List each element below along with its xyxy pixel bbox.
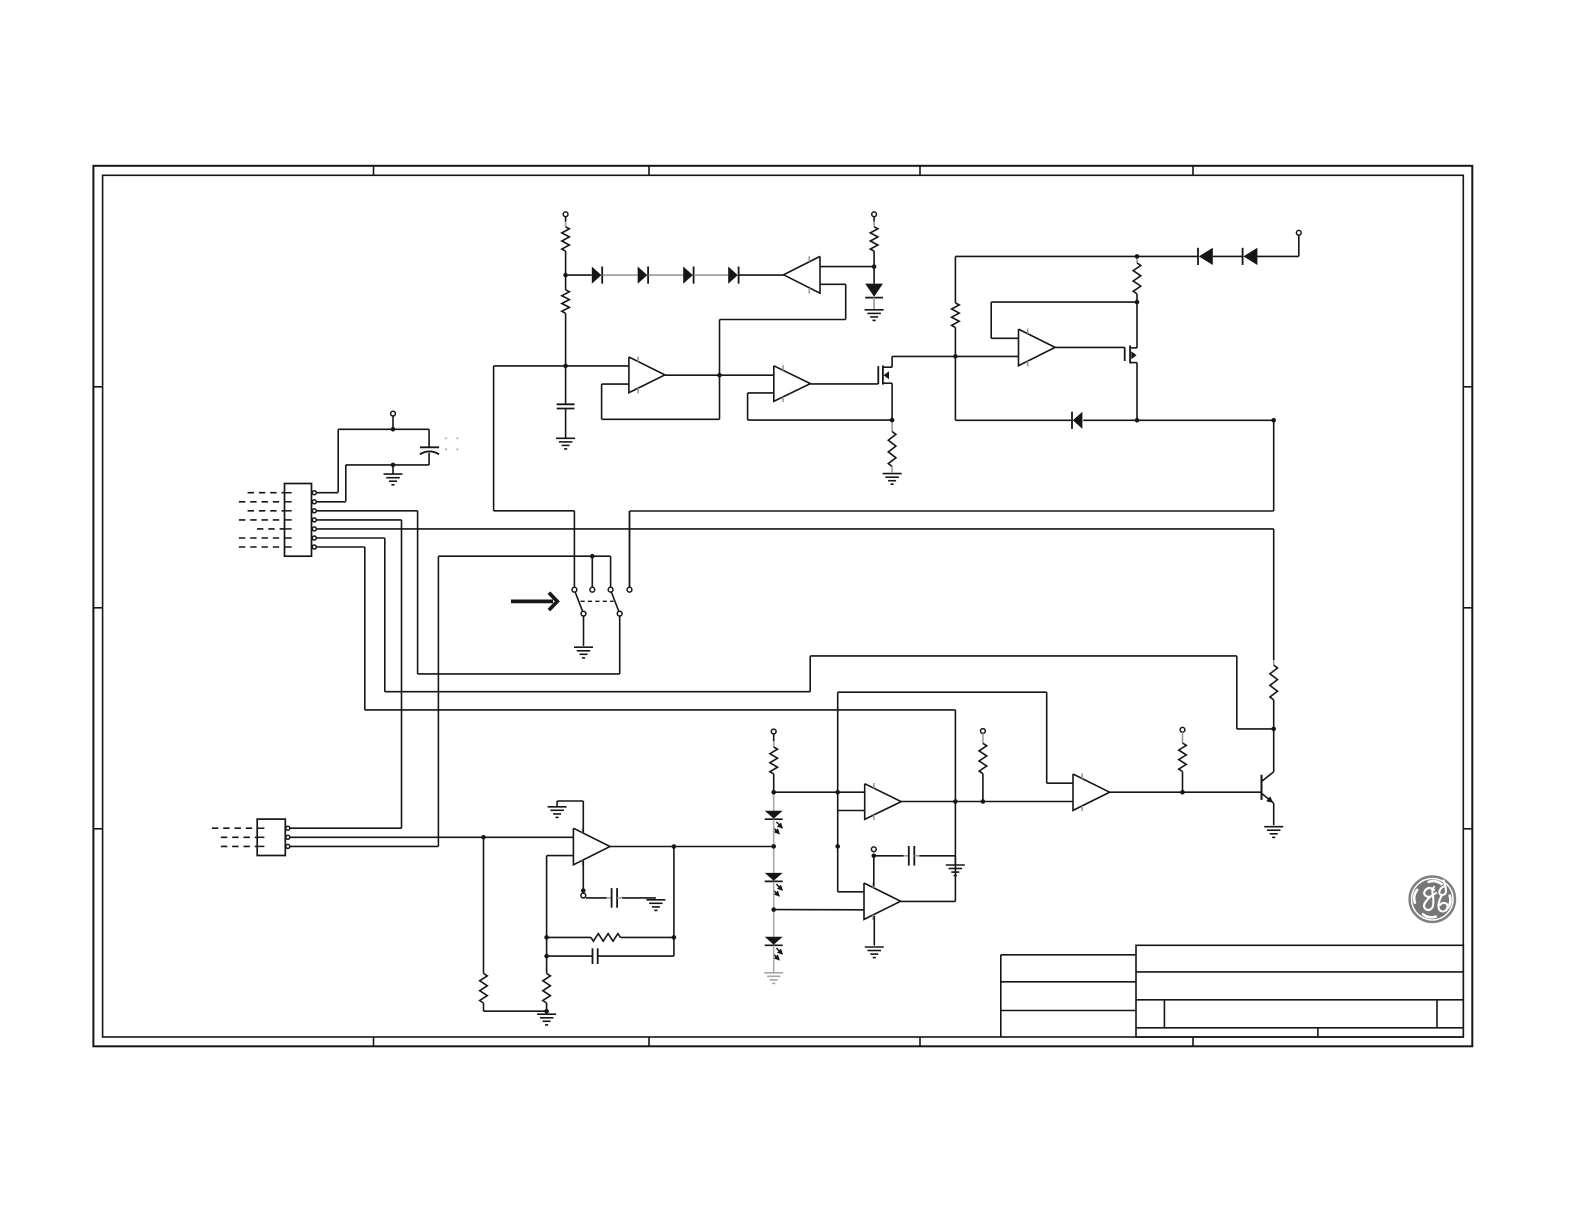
wire U7 output: [901, 900, 956, 902]
wire C2 bottom net: [346, 453, 429, 501]
wire D4 to U1 output: [739, 274, 784, 276]
border frame outer: [93, 166, 1472, 1047]
node Z junction: [981, 799, 986, 804]
wire main row to U2: [494, 365, 629, 367]
wire R10 to node: [773, 774, 775, 792]
wire U5 comp pin: [582, 860, 584, 890]
ground GND9: [764, 973, 783, 984]
node U junction: [771, 790, 776, 795]
wire R9 stub top: [891, 420, 893, 431]
wire box top edge: [438, 556, 610, 846]
wire R6 net: [483, 837, 485, 973]
wire R5 top stub: [1136, 256, 1138, 263]
LED DS1: [765, 811, 783, 835]
border frame inner: [103, 175, 1464, 1037]
wire U6 net to U8: [838, 692, 1073, 792]
switch S1 pole L2: [617, 611, 622, 616]
resistor R8: [591, 934, 621, 942]
capacitor C5: [909, 846, 915, 866]
ground GND1: [865, 310, 884, 321]
wire U8 output: [1110, 791, 1262, 793]
wire U2 feedback: [602, 384, 720, 419]
resistor R4: [952, 303, 960, 328]
op-amp U5: [573, 828, 610, 866]
node O junction: [581, 888, 586, 893]
revision table: [1001, 955, 1136, 1037]
wire U6 lower input branch: [838, 792, 865, 846]
node N junction: [481, 835, 486, 840]
wire switch c4 net: [630, 420, 1274, 587]
op-amp U1: [784, 256, 820, 293]
wire U7 bottom pin: [873, 916, 875, 946]
wire U5 feedback vertical: [598, 847, 674, 957]
ground GND6: [548, 807, 567, 818]
wire node D down: [954, 356, 956, 420]
wire L1 to ground: [583, 616, 585, 646]
resistor R1: [562, 227, 570, 251]
node AA junction: [835, 844, 840, 849]
wire U4 lower input: [892, 355, 1018, 357]
node M junction: [590, 554, 595, 559]
wire pin2: [316, 501, 346, 503]
wire R3 to node B: [873, 251, 875, 267]
resistor R7: [543, 973, 551, 1003]
wire R7 to ground node: [546, 1003, 548, 1011]
ground GND2: [556, 438, 575, 449]
diode D7: [1072, 412, 1082, 429]
capacitor C2 polarized: [420, 447, 439, 454]
connector CN2: [257, 819, 285, 855]
ground GND4: [384, 474, 403, 485]
ground GND5: [574, 647, 593, 658]
wire U5 power flag: [557, 801, 583, 833]
wire T1 to R1: [565, 217, 567, 227]
wire D6 to T3: [1257, 235, 1298, 256]
node L junction: [391, 463, 396, 468]
wire U5 lower input net: [547, 856, 574, 974]
wire R8 right: [620, 936, 674, 938]
node E junction: [1135, 300, 1140, 305]
wire D2-D3: [649, 274, 684, 276]
wire C5 to ground: [914, 856, 955, 865]
wire node L to ground: [392, 465, 394, 474]
wire R2 to node H: [565, 313, 567, 366]
wire pin7: [316, 547, 956, 901]
node A junction: [563, 273, 568, 278]
wire U4 output: [1055, 346, 1125, 348]
wire pinA: [290, 827, 402, 829]
wire LED2 top: [773, 846, 775, 873]
wire LED row 1: [774, 791, 865, 793]
node AD junction: [1271, 727, 1276, 732]
terminal T3: [1296, 230, 1301, 235]
ground GND12: [1264, 827, 1283, 838]
diode D1: [592, 267, 602, 284]
switch S1 contact c2: [590, 587, 595, 592]
wire U5 output: [610, 846, 774, 848]
switch arrow symbol: [511, 593, 557, 610]
ground GND11: [865, 947, 884, 958]
wire pin3: [316, 511, 418, 674]
diode D6: [1243, 248, 1258, 265]
node D junction: [953, 354, 958, 359]
ground GND10: [946, 865, 965, 876]
wire R1 to node A: [565, 251, 567, 275]
node J junction: [890, 418, 895, 423]
op-amp U6: [865, 783, 902, 820]
terminal T2: [872, 212, 877, 217]
wire R9 stub bottom: [891, 467, 893, 473]
diode D4: [728, 267, 738, 284]
LED DS3: [765, 937, 783, 961]
wire pin5: [316, 529, 1274, 660]
wire c3 up: [610, 556, 612, 587]
wire comp to C4: [586, 897, 612, 899]
connector CN2 pins: [286, 826, 290, 848]
connector CN1: [285, 484, 312, 557]
title block: [1136, 945, 1463, 1037]
wire comp to C5: [876, 855, 909, 857]
switch S1 contact c1: [572, 587, 577, 592]
wire node A to R2: [565, 275, 567, 290]
wire R6 bottom: [484, 1003, 547, 1011]
node K junction: [391, 427, 396, 432]
wire T5 to R10: [773, 734, 775, 747]
diode D3: [683, 267, 693, 284]
switch S1 lever 2: [611, 592, 619, 612]
terminal T5: [771, 729, 776, 734]
wire C4 to ground: [617, 897, 656, 899]
wire T4 down: [392, 416, 394, 429]
resistor R10: [770, 747, 778, 774]
LED DS2: [765, 873, 783, 897]
switch S1 contact c3: [608, 587, 613, 592]
wire pin1: [316, 492, 339, 494]
node W junction: [771, 844, 776, 849]
node Q junction: [672, 935, 677, 940]
faint marks: [445, 437, 459, 450]
wire feedback vertical: [719, 320, 721, 420]
wire D1-D2: [603, 274, 638, 276]
capacitor C4: [612, 888, 618, 908]
node Y junction: [953, 799, 958, 804]
node B junction: [872, 264, 877, 269]
connector CN1 pin stubs: [285, 493, 292, 547]
resistor R13: [1270, 665, 1278, 700]
wire D3-D4: [694, 274, 728, 276]
wire rail corner down R4: [954, 256, 956, 303]
terminal T6 comp: [581, 893, 586, 898]
transistor Q1 NPN: [1262, 772, 1274, 803]
node I junction: [717, 373, 722, 378]
node AC junction: [1180, 790, 1185, 795]
node V junction: [835, 790, 840, 795]
wire Q1 emitter: [1273, 803, 1275, 825]
resistor R11 pullup: [979, 729, 987, 802]
switch S1 contact c4: [627, 587, 632, 592]
resistor R9: [888, 432, 896, 467]
wire D5-D6: [1213, 255, 1243, 257]
wire C2 top net: [338, 429, 429, 492]
node AB junction: [872, 854, 877, 859]
wire R5 to node E: [1136, 294, 1138, 302]
transistor Q3 MOSFET: [878, 365, 892, 384]
wire U1 lower input feedback: [720, 284, 846, 319]
wire U1 upper input: [820, 266, 874, 268]
transistor Q2 MOSFET: [1125, 345, 1137, 363]
connector CN2 dashed leads: [212, 828, 257, 846]
ground GND3: [883, 474, 902, 485]
node F junction: [1135, 418, 1140, 423]
border zone ticks: [93, 166, 1472, 1047]
wire box bottom edge: [418, 673, 620, 675]
node G junction: [1271, 418, 1276, 423]
wire pinC: [290, 845, 439, 847]
node T junction: [544, 1009, 549, 1014]
wire c4 up: [629, 511, 631, 587]
wire bottom rail right: [1083, 419, 1274, 421]
wire Q1 collector: [1273, 729, 1275, 772]
capacitor C1: [557, 366, 575, 438]
connector CN1 pins: [312, 491, 316, 549]
resistor R2: [562, 290, 570, 314]
terminal T1: [563, 212, 568, 217]
resistor R5: [1133, 263, 1141, 294]
ground GND8: [537, 1014, 556, 1025]
wire LED3 top: [773, 910, 775, 937]
wire pin4: [316, 520, 402, 828]
wire U3 lower input feedback: [748, 393, 893, 420]
terminal T7 comp: [871, 847, 876, 852]
wire R8 left: [547, 936, 591, 938]
terminal T4: [391, 411, 396, 416]
wire bottom rail left: [955, 419, 1072, 421]
resistor R12 pullup: [1179, 727, 1187, 792]
wire R4 to node D: [954, 327, 956, 356]
wire pinB: [290, 836, 574, 838]
node H junction: [563, 364, 568, 369]
wire U7 comp pin: [873, 856, 875, 887]
diode D8: [865, 284, 883, 298]
wire Q3 source: [891, 383, 893, 420]
wire LED1 bottom: [773, 819, 775, 846]
wire switch c1 net: [494, 366, 575, 587]
capacitor C3: [593, 948, 598, 964]
switch S1 pole L1: [581, 611, 586, 616]
wire top rail: [955, 255, 1198, 257]
wire LED row 2: [774, 909, 864, 911]
resistor R6: [480, 973, 488, 1003]
node C junction: [1135, 254, 1140, 259]
wire Q3 drain: [891, 356, 893, 367]
node X junction: [771, 907, 776, 912]
wire U6 output: [901, 801, 1073, 803]
diode D2: [638, 267, 648, 284]
wire T2 to R3: [873, 217, 875, 227]
wire R13 stub: [1273, 660, 1275, 665]
switch S1 lever 1: [575, 592, 583, 612]
wire C3 left: [547, 955, 593, 957]
wire node A to D1: [568, 274, 592, 276]
wire D8 to ground: [873, 298, 875, 310]
wire Q2 source: [1136, 363, 1138, 421]
connector CN1 dashed leads: [239, 493, 285, 547]
wire U4 feedback: [991, 302, 1137, 338]
wire U2 output: [665, 374, 774, 376]
node S junction: [544, 954, 549, 959]
wire U3 output: [810, 383, 878, 385]
wire LED3 bottom: [773, 946, 775, 973]
GE logo: [1410, 877, 1455, 922]
wire node B to D8: [873, 267, 875, 284]
diode D5: [1198, 248, 1213, 265]
node R junction: [544, 935, 549, 940]
connector CN2 pin stubs: [257, 828, 264, 846]
wire mid net vertical: [838, 846, 864, 891]
op-amp U2: [629, 356, 665, 393]
op-amp U8: [1073, 773, 1110, 811]
wire L2 down: [619, 616, 621, 674]
wire c2 up: [591, 556, 593, 587]
wire LED2 bottom: [773, 882, 775, 910]
op-amp U4: [1019, 329, 1056, 367]
wire R13 to node: [1273, 700, 1275, 729]
switch S1 link dashed: [581, 600, 614, 602]
wire pin6: [316, 538, 1274, 729]
resistor R3: [870, 227, 878, 251]
ground GND7: [646, 900, 665, 911]
wire Q2 drain: [1136, 302, 1138, 348]
op-amp U7: [864, 882, 901, 920]
wire LED1 top: [773, 792, 775, 811]
node P junction: [672, 844, 677, 849]
op-amp U3: [774, 365, 811, 402]
